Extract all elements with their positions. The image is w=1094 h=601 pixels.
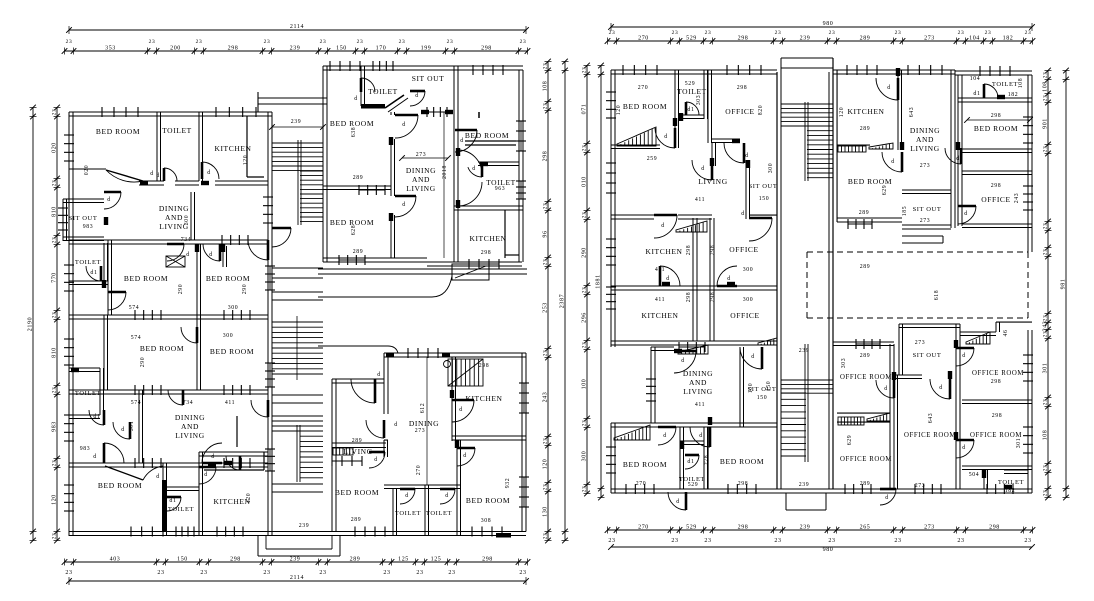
svg-text:303: 303 xyxy=(696,95,702,106)
svg-text:278: 278 xyxy=(704,455,710,466)
svg-text:23: 23 xyxy=(582,287,588,294)
svg-text:504: 504 xyxy=(969,472,980,478)
svg-text:273: 273 xyxy=(920,163,931,169)
svg-text:983: 983 xyxy=(52,421,58,432)
svg-text:185: 185 xyxy=(902,206,908,217)
svg-text:d: d xyxy=(209,252,213,258)
svg-text:d: d xyxy=(374,457,378,463)
right wing toilet xyxy=(703,70,705,119)
svg-text:289: 289 xyxy=(351,517,362,523)
svg-text:23: 23 xyxy=(543,63,549,70)
svg-text:BED ROOM: BED ROOM xyxy=(720,457,764,466)
right plan top dims xyxy=(611,26,1032,28)
bottom-right mini stair xyxy=(448,359,483,386)
svg-text:182: 182 xyxy=(1003,36,1014,42)
svg-text:d: d xyxy=(887,85,891,91)
svg-text:23: 23 xyxy=(383,570,390,576)
svg-text:d: d xyxy=(207,170,211,176)
svg-text:d1: d1 xyxy=(90,270,97,276)
svg-text:TOILET: TOILET xyxy=(992,81,1018,88)
svg-text:d: d xyxy=(741,211,745,217)
svg-text:TOILET: TOILET xyxy=(75,390,101,397)
svg-text:23: 23 xyxy=(520,39,527,45)
svg-text:23: 23 xyxy=(543,484,549,491)
right plan stoop xyxy=(785,493,787,510)
svg-text:270: 270 xyxy=(638,36,649,42)
left wing shaft x-box xyxy=(166,256,185,267)
right wing kitchen/office row2 xyxy=(611,340,777,342)
svg-text:301: 301 xyxy=(129,421,135,432)
svg-text:d: d xyxy=(676,499,680,505)
svg-text:289: 289 xyxy=(352,438,363,444)
upper block toilet box xyxy=(478,161,519,163)
svg-text:298: 298 xyxy=(991,183,1002,189)
right plan windows xyxy=(623,69,657,71)
svg-text:529: 529 xyxy=(686,36,697,42)
left plan stairs lower flight xyxy=(272,415,323,417)
svg-text:300: 300 xyxy=(223,333,234,339)
svg-text:270: 270 xyxy=(636,481,647,487)
svg-text:TOILET: TOILET xyxy=(426,510,452,517)
svg-text:980: 980 xyxy=(823,547,834,553)
right top-right office xyxy=(962,170,1032,172)
svg-text:23: 23 xyxy=(1043,465,1049,472)
svg-text:529: 529 xyxy=(686,525,697,531)
svg-text:BED ROOM: BED ROOM xyxy=(974,124,1018,133)
svg-text:d: d xyxy=(463,453,467,459)
svg-text:071: 071 xyxy=(582,104,588,115)
svg-text:d: d xyxy=(681,358,685,364)
svg-text:d: d xyxy=(107,197,111,203)
bottom-right living wall xyxy=(332,442,386,444)
svg-text:23: 23 xyxy=(52,180,58,187)
svg-text:1881: 1881 xyxy=(596,274,602,288)
svg-text:810: 810 xyxy=(52,206,58,217)
svg-text:d: d xyxy=(663,433,667,439)
svg-text:239: 239 xyxy=(291,119,302,125)
svg-text:BED ROOM: BED ROOM xyxy=(140,344,184,353)
svg-text:23: 23 xyxy=(895,30,902,36)
svg-text:BED ROOM: BED ROOM xyxy=(623,460,667,469)
svg-text:150: 150 xyxy=(757,395,768,401)
svg-text:104: 104 xyxy=(969,36,980,42)
right wing bedroom xyxy=(674,70,676,148)
svg-text:23: 23 xyxy=(774,538,781,544)
svg-text:734: 734 xyxy=(181,237,192,243)
svg-text:23: 23 xyxy=(263,570,270,576)
upper block toilet xyxy=(360,66,362,106)
svg-text:23: 23 xyxy=(1043,399,1049,406)
svg-text:23: 23 xyxy=(957,538,964,544)
svg-text:LIVING: LIVING xyxy=(406,184,435,193)
svg-text:239: 239 xyxy=(800,36,811,42)
svg-text:529: 529 xyxy=(688,482,699,488)
left plan corridor bridge xyxy=(258,97,327,99)
svg-text:010: 010 xyxy=(582,176,588,187)
left wing courtyard windows xyxy=(269,266,271,290)
bottom-right block outer xyxy=(384,352,526,354)
right top-right toilet xyxy=(958,97,1032,99)
svg-text:LIVING: LIVING xyxy=(175,431,204,440)
svg-text:182: 182 xyxy=(1005,488,1016,494)
svg-text:23: 23 xyxy=(196,39,203,45)
svg-text:d: d xyxy=(727,276,731,282)
svg-text:d: d xyxy=(354,96,358,102)
svg-text:301: 301 xyxy=(1016,438,1022,449)
svg-text:23: 23 xyxy=(543,203,549,210)
left wing lower rooms xyxy=(162,463,164,536)
svg-text:TOILET: TOILET xyxy=(395,510,421,517)
left plan right dims xyxy=(564,62,566,541)
svg-text:d: d xyxy=(459,407,463,413)
svg-text:23: 23 xyxy=(609,30,616,36)
svg-text:d: d xyxy=(751,354,755,360)
svg-text:298: 298 xyxy=(992,413,1003,419)
svg-text:DINING: DINING xyxy=(409,419,439,428)
svg-text:23: 23 xyxy=(447,39,454,45)
svg-text:298: 298 xyxy=(738,525,749,531)
svg-text:296: 296 xyxy=(582,312,588,323)
svg-text:KITCHEN: KITCHEN xyxy=(214,144,251,153)
svg-text:104: 104 xyxy=(970,76,981,82)
svg-text:643: 643 xyxy=(928,413,934,424)
left plan courtyard curved path xyxy=(318,276,452,297)
svg-text:23: 23 xyxy=(52,533,58,540)
svg-text:308: 308 xyxy=(481,518,492,524)
left wing sit-out porch xyxy=(63,198,104,200)
svg-text:199: 199 xyxy=(421,46,432,52)
svg-text:298: 298 xyxy=(543,151,549,162)
svg-text:629: 629 xyxy=(847,435,853,446)
svg-text:298: 298 xyxy=(481,46,492,52)
svg-text:243: 243 xyxy=(543,392,549,403)
svg-text:OFFICE ROOM: OFFICE ROOM xyxy=(970,432,1022,439)
svg-text:d: d xyxy=(402,202,406,208)
svg-text:411: 411 xyxy=(655,297,665,303)
svg-text:d: d xyxy=(394,422,398,428)
svg-text:23: 23 xyxy=(320,39,327,45)
svg-text:734: 734 xyxy=(183,400,194,406)
svg-text:265: 265 xyxy=(860,525,871,531)
right plan door arcs xyxy=(655,128,675,148)
svg-text:289: 289 xyxy=(860,353,871,359)
svg-text:23: 23 xyxy=(958,30,965,36)
svg-text:273: 273 xyxy=(920,218,931,224)
svg-text:23: 23 xyxy=(149,39,156,45)
svg-text:100: 100 xyxy=(748,383,754,394)
svg-text:301: 301 xyxy=(1043,363,1049,374)
svg-text:d: d xyxy=(664,134,668,140)
svg-text:150: 150 xyxy=(759,196,770,202)
svg-text:120: 120 xyxy=(839,107,845,118)
svg-text:d: d xyxy=(701,166,705,172)
upper block dining right wall xyxy=(443,112,445,258)
svg-text:770: 770 xyxy=(52,272,58,283)
svg-text:d: d xyxy=(121,427,125,433)
left plan veranda edge below upper block xyxy=(318,268,527,270)
left plan courtyard lower line xyxy=(318,346,398,353)
svg-text:d: d xyxy=(939,385,943,391)
svg-text:300: 300 xyxy=(743,267,754,273)
svg-text:SIT OUT: SIT OUT xyxy=(913,352,942,359)
svg-text:d1: d1 xyxy=(687,459,694,465)
svg-text:243: 243 xyxy=(1014,193,1020,204)
svg-text:298: 298 xyxy=(710,292,716,303)
svg-text:23: 23 xyxy=(519,570,526,576)
svg-text:411: 411 xyxy=(695,402,705,408)
svg-text:d1: d1 xyxy=(687,107,694,113)
svg-text:DINING: DINING xyxy=(683,369,713,378)
svg-text:529: 529 xyxy=(685,81,696,87)
svg-text:KITCHEN: KITCHEN xyxy=(641,311,678,320)
svg-text:273: 273 xyxy=(416,152,427,158)
bottom-right bedroom/toilet row xyxy=(426,357,428,485)
svg-text:TOILET: TOILET xyxy=(368,87,398,96)
svg-text:810: 810 xyxy=(52,347,58,358)
svg-text:LIVING: LIVING xyxy=(683,387,712,396)
svg-text:23: 23 xyxy=(1043,490,1049,497)
svg-text:298: 298 xyxy=(737,85,748,91)
svg-text:23: 23 xyxy=(894,538,901,544)
svg-text:TOILET: TOILET xyxy=(75,259,101,266)
svg-text:d: d xyxy=(156,474,160,480)
svg-text:AND: AND xyxy=(412,175,430,184)
svg-text:d: d xyxy=(211,454,215,460)
svg-text:120: 120 xyxy=(243,155,249,166)
left plan left dims xyxy=(32,108,34,541)
svg-text:23: 23 xyxy=(543,103,549,110)
left plan corridor landing lines xyxy=(272,267,323,269)
svg-text:BED ROOM: BED ROOM xyxy=(210,347,254,356)
svg-text:BED ROOM: BED ROOM xyxy=(466,496,510,505)
svg-text:300: 300 xyxy=(582,451,588,462)
svg-text:OFFICE: OFFICE xyxy=(729,245,758,254)
svg-text:d: d xyxy=(204,472,208,478)
left plan entrance steps box xyxy=(452,264,489,280)
svg-text:BED ROOM: BED ROOM xyxy=(124,274,168,283)
svg-text:d: d xyxy=(415,93,419,99)
right middle dining xyxy=(950,70,952,228)
svg-text:273: 273 xyxy=(924,36,935,42)
svg-text:298: 298 xyxy=(482,557,493,563)
svg-text:289: 289 xyxy=(860,264,871,270)
svg-text:629: 629 xyxy=(882,185,888,196)
svg-text:23: 23 xyxy=(1043,146,1049,153)
left plan stairs upper flight xyxy=(272,142,323,144)
svg-text:303: 303 xyxy=(841,358,847,369)
svg-text:2190: 2190 xyxy=(28,317,34,331)
svg-text:KITCHEN: KITCHEN xyxy=(645,247,682,256)
svg-text:23: 23 xyxy=(65,570,72,576)
svg-text:96: 96 xyxy=(543,230,549,237)
svg-text:23: 23 xyxy=(775,30,782,36)
right wing office xyxy=(707,70,709,143)
right bottom office col A xyxy=(833,341,894,343)
svg-text:239: 239 xyxy=(290,557,301,563)
svg-text:273: 273 xyxy=(915,340,926,346)
svg-text:OFFICE ROOM: OFFICE ROOM xyxy=(840,374,892,381)
right wing bedroom/toilet bottom row xyxy=(679,427,681,489)
right middle bedroom xyxy=(837,217,902,219)
svg-text:411: 411 xyxy=(225,400,235,406)
left plan outer walls xyxy=(68,112,70,536)
svg-text:d: d xyxy=(402,122,406,128)
svg-text:125: 125 xyxy=(431,557,442,563)
svg-text:46: 46 xyxy=(1003,330,1009,337)
svg-text:298: 298 xyxy=(991,379,1002,385)
svg-text:612: 612 xyxy=(420,403,426,414)
svg-text:901: 901 xyxy=(1043,118,1049,129)
svg-text:239: 239 xyxy=(799,482,810,488)
svg-text:23: 23 xyxy=(399,39,406,45)
svg-text:BED ROOM: BED ROOM xyxy=(623,102,667,111)
left plan door arcs xyxy=(108,292,126,310)
svg-text:23: 23 xyxy=(608,538,615,544)
svg-text:290: 290 xyxy=(178,284,184,295)
svg-text:253: 253 xyxy=(543,302,549,313)
svg-text:23: 23 xyxy=(1043,95,1049,102)
svg-text:983: 983 xyxy=(80,446,91,452)
svg-text:SIT OUT: SIT OUT xyxy=(412,74,445,83)
svg-text:OFFICE ROOM: OFFICE ROOM xyxy=(904,432,956,439)
svg-text:020: 020 xyxy=(84,165,90,176)
svg-text:108: 108 xyxy=(1043,81,1049,92)
svg-text:200: 200 xyxy=(170,46,181,52)
left wing room partitions xyxy=(156,112,158,181)
right plan outer walls xyxy=(611,69,777,71)
left wing bedroom rows xyxy=(69,314,268,316)
svg-text:23: 23 xyxy=(1025,30,1032,36)
svg-text:OFFICE ROOM: OFFICE ROOM xyxy=(840,456,892,463)
svg-text:2114: 2114 xyxy=(290,575,304,581)
svg-text:d: d xyxy=(472,166,476,172)
left plan bottom dims xyxy=(65,561,528,563)
svg-text:d: d xyxy=(885,495,889,501)
svg-text:23: 23 xyxy=(543,533,549,540)
svg-text:020: 020 xyxy=(52,142,58,153)
left plan top segment dims xyxy=(65,50,528,52)
svg-text:23: 23 xyxy=(543,259,549,266)
left plan windows xyxy=(102,111,138,113)
svg-text:d: d xyxy=(699,433,703,439)
svg-text:239: 239 xyxy=(799,348,810,354)
svg-text:DINING: DINING xyxy=(175,413,205,422)
svg-text:574: 574 xyxy=(129,305,140,311)
svg-text:OFFICE: OFFICE xyxy=(730,311,759,320)
svg-text:628: 628 xyxy=(351,225,357,236)
right plan stair tower xyxy=(781,57,833,59)
svg-text:120: 120 xyxy=(246,493,252,504)
svg-text:243: 243 xyxy=(1043,321,1049,332)
svg-text:23: 23 xyxy=(52,387,58,394)
svg-text:23: 23 xyxy=(52,237,58,244)
svg-text:d: d xyxy=(891,159,895,165)
left plan top total dim xyxy=(69,29,526,31)
svg-text:d: d xyxy=(745,153,749,159)
svg-text:298: 298 xyxy=(479,363,490,369)
svg-text:298: 298 xyxy=(230,557,241,563)
svg-text:d: d xyxy=(666,276,670,282)
svg-text:820: 820 xyxy=(758,105,764,116)
svg-text:239: 239 xyxy=(290,46,301,52)
svg-text:638: 638 xyxy=(351,127,357,138)
right middle sitout xyxy=(902,189,951,191)
svg-text:289: 289 xyxy=(353,175,364,181)
svg-text:981: 981 xyxy=(1061,279,1067,290)
svg-text:BED ROOM: BED ROOM xyxy=(96,127,140,136)
svg-text:980: 980 xyxy=(823,21,834,27)
svg-text:23: 23 xyxy=(543,350,549,357)
svg-text:150: 150 xyxy=(766,381,772,392)
svg-text:289: 289 xyxy=(353,249,364,255)
right bottom toilet xyxy=(983,470,985,489)
svg-text:411: 411 xyxy=(655,267,665,273)
svg-text:23: 23 xyxy=(1024,538,1031,544)
svg-text:SIT OUT: SIT OUT xyxy=(69,215,98,222)
left plan entrance stoop xyxy=(257,536,259,556)
svg-text:130: 130 xyxy=(543,506,549,517)
svg-text:KITCHEN: KITCHEN xyxy=(465,394,502,403)
svg-text:270: 270 xyxy=(638,525,649,531)
svg-text:23: 23 xyxy=(1043,72,1049,79)
svg-text:963: 963 xyxy=(495,186,506,192)
svg-text:182: 182 xyxy=(1008,92,1019,98)
svg-text:SIT OUT: SIT OUT xyxy=(913,206,942,213)
svg-text:d: d xyxy=(964,211,968,217)
right top-right bedroom xyxy=(957,75,959,226)
right plan bottom dims xyxy=(608,529,1033,531)
svg-text:120: 120 xyxy=(616,105,622,116)
svg-text:411: 411 xyxy=(695,197,705,203)
svg-text:273: 273 xyxy=(415,428,426,434)
svg-text:239: 239 xyxy=(800,525,811,531)
svg-text:289: 289 xyxy=(350,557,361,563)
svg-text:d: d xyxy=(956,156,960,162)
svg-text:OFFICE: OFFICE xyxy=(725,107,754,116)
svg-text:23: 23 xyxy=(52,109,58,116)
svg-text:353: 353 xyxy=(105,46,116,52)
right middle kitchen xyxy=(836,70,838,222)
svg-text:120: 120 xyxy=(543,459,549,470)
svg-text:298: 298 xyxy=(738,36,749,42)
upper block curved toilet wall xyxy=(458,150,482,174)
svg-text:d: d xyxy=(186,252,190,258)
svg-text:23: 23 xyxy=(582,342,588,349)
svg-text:298: 298 xyxy=(481,250,492,256)
svg-text:23: 23 xyxy=(1043,249,1049,256)
upper block kitchen xyxy=(504,210,506,258)
svg-text:108: 108 xyxy=(1018,78,1024,89)
right wing living/sitout xyxy=(745,160,747,219)
svg-text:23: 23 xyxy=(582,486,588,493)
svg-text:TOILET: TOILET xyxy=(162,126,192,135)
svg-text:DINING: DINING xyxy=(910,126,940,135)
svg-text:d: d xyxy=(156,173,160,179)
svg-text:KITCHEN: KITCHEN xyxy=(213,497,250,506)
svg-text:BED ROOM: BED ROOM xyxy=(98,481,142,490)
svg-text:23: 23 xyxy=(828,538,835,544)
svg-text:23: 23 xyxy=(264,39,271,45)
svg-text:BED ROOM: BED ROOM xyxy=(465,131,509,140)
svg-text:108: 108 xyxy=(1043,430,1049,441)
svg-text:983: 983 xyxy=(83,224,94,230)
svg-text:298: 298 xyxy=(228,46,239,52)
svg-text:23: 23 xyxy=(157,570,164,576)
svg-text:TOILET: TOILET xyxy=(677,87,707,96)
svg-text:OFFICE ROOM: OFFICE ROOM xyxy=(972,370,1024,377)
svg-text:290: 290 xyxy=(140,357,146,368)
svg-text:d1: d1 xyxy=(169,498,176,504)
